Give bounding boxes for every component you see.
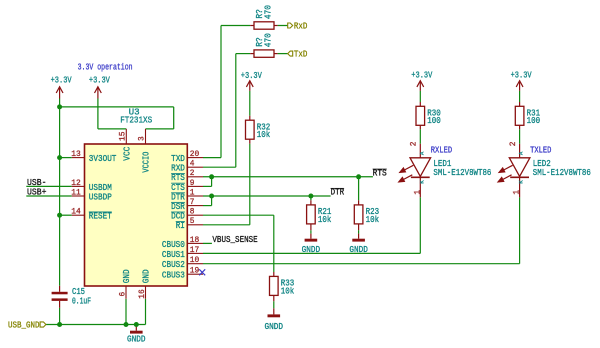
resistor pin stubs — [249, 116, 251, 121]
svg-text:+3.3V: +3.3V — [241, 71, 262, 81]
svg-text:17: 17 — [190, 245, 200, 255]
wire CBUS1 net to LED1 — [203, 252, 420, 254]
pin 20 TXD — [187, 157, 203, 159]
svg-text:470: 470 — [263, 5, 273, 19]
capacitor C15 0.1uF — [59, 286, 61, 292]
power +3.3V PWR1 — [56, 87, 63, 99]
svg-text:470: 470 — [263, 33, 273, 47]
svg-text:SML-E12V8WT86: SML-E12V8WT86 — [533, 168, 591, 178]
resistor R21 — [307, 205, 316, 224]
pin 7 DSR — [187, 205, 203, 207]
wire DCD net to R33 — [203, 214, 274, 216]
power +3.3V PWR5 — [516, 81, 523, 91]
power +3.3V PWR3 — [246, 81, 253, 91]
wire DTR net — [203, 195, 331, 197]
pin 16 GND — [145, 286, 147, 299]
wire RTS to R23 — [358, 177, 360, 201]
resistor R33 — [270, 276, 279, 295]
junction C — [57, 213, 62, 218]
svg-text:15: 15 — [118, 132, 128, 142]
wire to 3V3OUT — [60, 157, 72, 159]
svg-text:SML-E12V8WT86: SML-E12V8WT86 — [433, 168, 491, 178]
svg-text:DTR: DTR — [171, 192, 185, 202]
resistor R? 470 (row 1) — [250, 25, 254, 27]
wire to VCC pin — [98, 128, 126, 130]
svg-text:DCD: DCD — [171, 212, 185, 222]
pin 13 3V3OUT — [72, 157, 85, 159]
svg-text:13: 13 — [71, 149, 81, 159]
svg-text:10k: 10k — [281, 286, 295, 296]
pin 3 VCCIO — [145, 129, 147, 144]
svg-text:20: 20 — [190, 149, 200, 159]
pin 15 VCC — [125, 129, 127, 144]
LED LED2 SML-E12V8WT86 — [519, 144, 521, 158]
svg-text:9: 9 — [190, 178, 195, 188]
svg-text:100: 100 — [427, 116, 441, 126]
svg-text:GNDD: GNDD — [127, 335, 146, 345]
svg-text:19: 19 — [190, 266, 200, 276]
wire USB- net — [26, 185, 72, 187]
junction GND pin6 — [124, 322, 129, 327]
resistor R30 — [416, 106, 425, 125]
svg-text:1: 1 — [512, 190, 522, 195]
svg-text:CTS: CTS — [171, 183, 185, 193]
svg-text:3V3OUT: 3V3OUT — [89, 154, 117, 164]
no-connect X on CBUS3 — [199, 269, 205, 275]
wire to RESET — [60, 214, 72, 216]
junction DTR tie — [209, 194, 214, 199]
svg-text:1: 1 — [412, 190, 422, 195]
pin 18 CBUS0 — [187, 242, 203, 244]
svg-text:2: 2 — [190, 168, 195, 178]
svg-text:18: 18 — [190, 235, 200, 245]
resistor R32 — [246, 120, 255, 139]
svg-text:CBUS1: CBUS1 — [162, 250, 185, 260]
svg-text:TXLED: TXLED — [530, 146, 551, 156]
svg-text:12: 12 — [71, 178, 81, 188]
resistor R23 — [354, 205, 363, 224]
wire RTS to CTS tie — [211, 177, 213, 187]
resistor R31 — [515, 106, 524, 125]
hierarchical label TxD — [288, 51, 293, 56]
power GNDD under R21 — [310, 234, 312, 239]
svg-text:CBUS3: CBUS3 — [162, 271, 185, 281]
pin 10 CBUS2 — [187, 263, 203, 265]
power +3.3V PWR2 — [95, 87, 102, 99]
svg-text:+3.3V: +3.3V — [51, 76, 72, 86]
wire VCC drop — [173, 107, 175, 129]
svg-text:GND: GND — [142, 269, 152, 283]
svg-text:GND: GND — [122, 269, 132, 283]
power GNDD under R23 — [358, 234, 360, 239]
svg-text:6: 6 — [117, 292, 127, 297]
svg-text:TxD: TxD — [294, 50, 308, 60]
svg-text:2: 2 — [508, 142, 518, 147]
wire to TxD label — [278, 53, 288, 55]
svg-text:DTR: DTR — [331, 188, 345, 198]
wire R21 R23 R33 ground stubs — [310, 230, 312, 233]
LED LED1 SML-E12V8WT86 — [419, 144, 421, 158]
pin 19 CBUS3 — [187, 273, 203, 275]
svg-text:7: 7 — [190, 197, 195, 207]
svg-text:11: 11 — [71, 187, 81, 197]
svg-text:VCC: VCC — [123, 146, 133, 161]
wire VCC top rail — [60, 106, 174, 108]
wire +3.3V riser — [97, 99, 99, 129]
pin 2 RTS — [187, 176, 203, 178]
svg-text:USBDM: USBDM — [89, 183, 112, 193]
wire TXD net to RxD resistor — [203, 157, 221, 159]
pin 4 RXD — [187, 166, 203, 168]
svg-text:3.3V operation: 3.3V operation — [78, 63, 133, 73]
pin 14 RESET — [72, 214, 85, 216]
global label USB_GND — [40, 322, 46, 327]
wire RTS net — [203, 176, 373, 178]
op-amp U3 FT231XS body — [85, 144, 188, 286]
svg-text:2: 2 — [409, 142, 419, 147]
wire LED chains — [419, 91, 421, 102]
svg-text:DSR: DSR — [171, 202, 185, 212]
pin 9 CTS — [187, 185, 203, 187]
svg-text:RI: RI — [176, 221, 185, 231]
junction D — [57, 322, 62, 327]
svg-text:RxD: RxD — [294, 21, 308, 31]
svg-text:USB+: USB+ — [27, 188, 47, 198]
svg-text:10: 10 — [190, 255, 200, 265]
svg-text:16: 16 — [137, 289, 147, 299]
wire RXD net to TxD resistor — [203, 166, 236, 168]
svg-text:GNDD: GNDD — [349, 245, 368, 255]
junction RTS tie — [209, 174, 214, 179]
wire RI net to R32 — [203, 224, 250, 226]
svg-text:100: 100 — [527, 116, 541, 126]
svg-text:1: 1 — [190, 187, 195, 197]
svg-text:14: 14 — [71, 207, 81, 217]
svg-text:+3.3V: +3.3V — [511, 71, 532, 81]
svg-text:10k: 10k — [257, 130, 271, 140]
svg-text:USB-: USB- — [27, 178, 47, 188]
wire USB+ net — [26, 195, 72, 197]
pin 1 DTR — [187, 195, 203, 197]
svg-text:+3.3V: +3.3V — [411, 71, 432, 81]
svg-text:GNDD: GNDD — [265, 322, 284, 332]
pin 11 USBDP — [72, 195, 85, 197]
junction R21 tap — [308, 194, 313, 199]
power +3.3V PWR4 — [417, 81, 424, 91]
svg-text:TXD: TXD — [171, 154, 185, 164]
svg-text:+3.3V: +3.3V — [89, 76, 110, 86]
wire to RxD label — [278, 25, 288, 27]
svg-text:FT231XS: FT231XS — [120, 116, 152, 126]
pin 12 USBDM — [72, 185, 85, 187]
svg-text:GNDD: GNDD — [302, 245, 321, 255]
svg-text:RTS: RTS — [171, 173, 185, 183]
pin 5 RI — [187, 224, 203, 226]
wire: +3.3V left rail down to C15 — [59, 99, 61, 286]
pin 8 DCD — [187, 214, 203, 216]
pin 6 GND — [125, 286, 127, 299]
svg-text:RESET: RESET — [89, 212, 113, 222]
svg-text:USB_GND: USB_GND — [8, 320, 40, 330]
hierarchical label RxD — [288, 23, 293, 28]
wire CBUS2 net to LED2 — [203, 263, 520, 265]
wire DTR to R21 — [310, 196, 312, 200]
svg-text:C15: C15 — [72, 287, 85, 297]
svg-text:CBUS0: CBUS0 — [162, 240, 185, 250]
power GNDD under R33 — [273, 308, 275, 314]
svg-text:5: 5 — [190, 216, 195, 226]
svg-text:10k: 10k — [318, 215, 332, 225]
junction B — [57, 155, 62, 160]
wire VBUS_SENSE stub — [203, 242, 212, 244]
wire to VCCIO pin — [146, 128, 174, 130]
svg-text:RXLED: RXLED — [431, 146, 452, 156]
junction A — [57, 104, 62, 109]
svg-text:0.1uF: 0.1uF — [72, 296, 91, 306]
resistor R? 470 (row 2) — [250, 53, 254, 55]
junction GND sym — [134, 322, 139, 327]
svg-text:VCCIO: VCCIO — [142, 152, 152, 173]
wire ground bus — [46, 324, 146, 326]
pin 17 CBUS1 — [187, 252, 203, 254]
power GNDD GNDD1 — [135, 325, 137, 331]
svg-text:4: 4 — [190, 159, 195, 169]
svg-text:USBDP: USBDP — [89, 192, 112, 202]
svg-text:10k: 10k — [366, 215, 380, 225]
svg-text:CBUS2: CBUS2 — [162, 260, 185, 270]
svg-text:3: 3 — [137, 136, 147, 141]
svg-text:VBUS_SENSE: VBUS_SENSE — [212, 235, 257, 245]
svg-text:RTS: RTS — [373, 168, 387, 178]
svg-text:8: 8 — [190, 207, 195, 217]
junction R23 tap — [356, 174, 361, 179]
wire DTR to DSR tie — [211, 196, 213, 206]
svg-text:RXD: RXD — [171, 164, 185, 174]
